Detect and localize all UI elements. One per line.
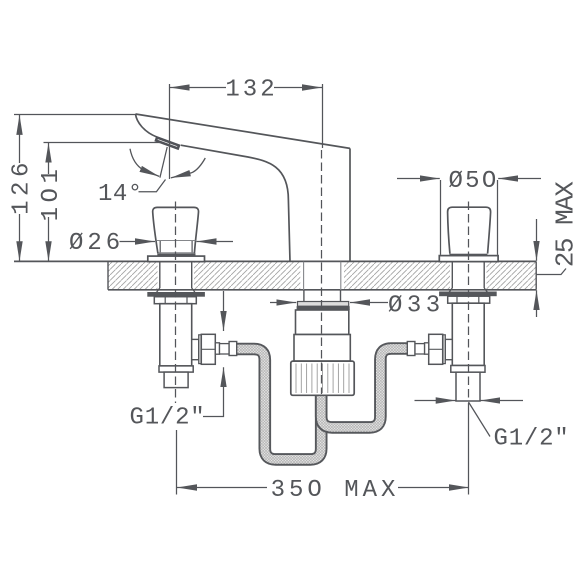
left valve body below counter	[147, 262, 236, 388]
spout shank, washer and mounting nut below counter	[291, 262, 354, 396]
right flexible supply hose	[321, 349, 408, 428]
svg-text:25 MAX: 25 MAX	[551, 181, 580, 268]
side fitting	[192, 339, 199, 359]
svg-text:Ø5O: Ø5O	[448, 168, 498, 195]
spout centerline	[321, 150, 323, 394]
side fitting	[445, 339, 452, 359]
spout outline	[136, 114, 351, 261]
right handle (hot) with escutcheon	[439, 207, 498, 261]
svg-text:Ø26: Ø26	[69, 230, 124, 257]
left handle (cold) with escutcheon	[148, 207, 205, 261]
svg-text:G1/2": G1/2"	[494, 426, 570, 453]
svg-text:Ø33: Ø33	[388, 293, 445, 320]
svg-text:14°: 14°	[98, 181, 143, 208]
dimension 126 (spout height)	[14, 115, 136, 262]
left flexible supply hose	[237, 349, 322, 459]
spout extension line (dim 132 right)	[322, 84, 324, 148]
svg-text:35O MAX: 35O MAX	[271, 477, 400, 504]
aerator outlet nozzle	[156, 138, 179, 149]
dimension 25 MAX (counter thickness)	[536, 219, 566, 317]
svg-text:132: 132	[225, 77, 277, 104]
svg-text:G1/2": G1/2"	[130, 405, 206, 432]
swivel arc left	[130, 149, 159, 177]
countertop (hatched section, 25 MAX thick)	[14, 261, 536, 289]
stream vertical reference / dim 132 left extension line	[169, 84, 171, 179]
dimension 101 (outlet height)	[44, 143, 162, 262]
dimension 350 MAX (handle centres)	[177, 403, 470, 495]
swivel arc right	[171, 158, 206, 178]
svg-text:1O1: 1O1	[38, 165, 65, 222]
right handle centerline	[468, 202, 470, 400]
stream 14 deg tilted line	[160, 147, 167, 178]
left handle centerline	[175, 202, 177, 404]
dimension 132 (spout reach)	[170, 87, 322, 89]
right valve body below counter	[407, 262, 496, 401]
svg-text:126: 126	[9, 158, 36, 215]
